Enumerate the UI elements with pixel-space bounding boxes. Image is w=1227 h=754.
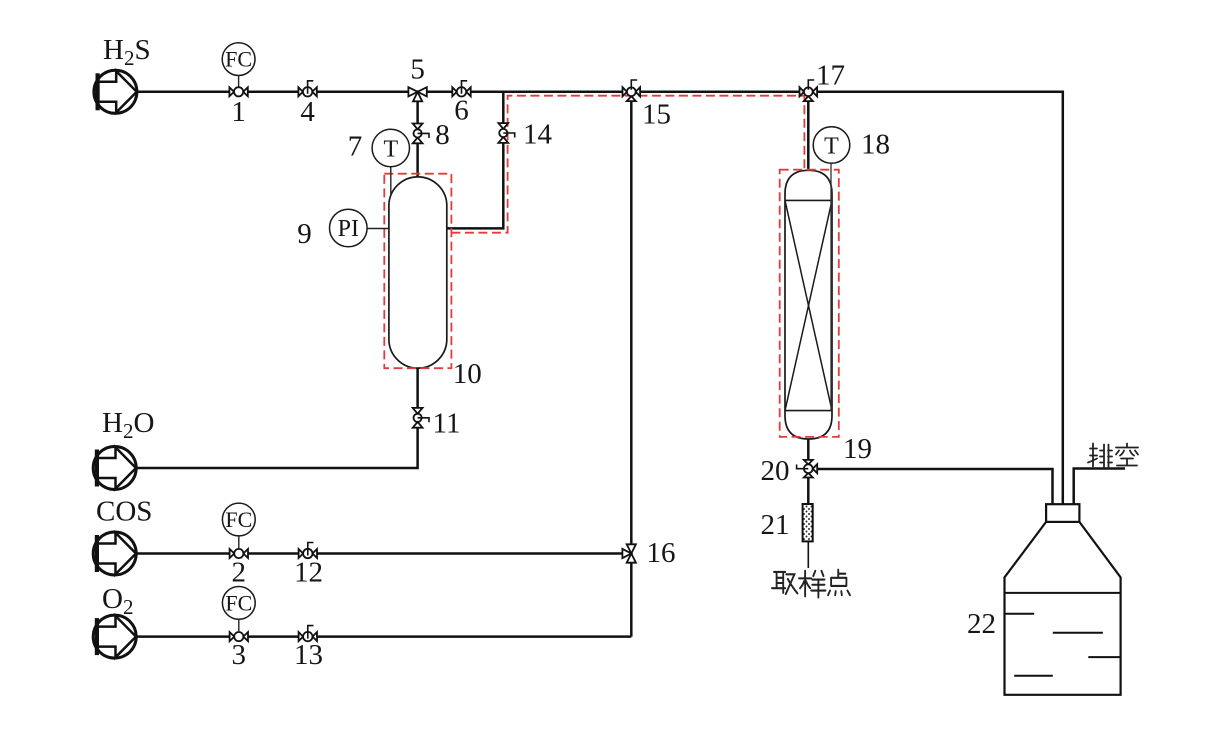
svg-text:8: 8 xyxy=(435,119,450,151)
svg-text:T: T xyxy=(383,137,398,163)
heated line red dashed around vessel 10 xyxy=(384,174,451,369)
svg-text:11: 11 xyxy=(433,408,461,440)
svg-text:T: T xyxy=(824,134,839,160)
svg-text:6: 6 xyxy=(454,95,469,127)
label 取样点 sampling point (hand-drawn glyphs) xyxy=(772,570,850,598)
pipe O2 line to valve16 riser xyxy=(136,635,631,638)
svg-text:22: 22 xyxy=(967,608,996,640)
reactor bottom tangent line xyxy=(785,410,832,412)
gas source H2S xyxy=(94,70,137,113)
control valve 3 xyxy=(230,632,248,641)
svg-text:14: 14 xyxy=(523,119,553,151)
pipe vessel outlet to valve14 riser xyxy=(447,92,504,229)
three-way valve 5 xyxy=(408,87,426,101)
svg-text:15: 15 xyxy=(642,99,671,131)
pipe valve15 down through valve16 to O2 line xyxy=(630,92,633,637)
valve 13 xyxy=(299,626,317,642)
svg-text:FC: FC xyxy=(225,47,252,72)
reactor packing X diagonal 2 xyxy=(785,200,832,410)
three-way valve 17 xyxy=(800,80,818,101)
svg-text:FC: FC xyxy=(225,590,252,615)
three-way valve 15 xyxy=(623,80,641,101)
instrument FC for valve 2 xyxy=(222,503,255,549)
svg-text:5: 5 xyxy=(410,54,425,86)
valve 14 xyxy=(498,123,514,143)
control valve 1 xyxy=(229,87,247,96)
valve 6 xyxy=(452,81,470,97)
pipe branch valve5 down to vessel xyxy=(416,92,419,180)
three-way valve 20 xyxy=(797,460,818,478)
reactor top tangent line xyxy=(785,199,832,201)
svg-text:20: 20 xyxy=(761,455,790,487)
gas source O2 xyxy=(93,615,136,658)
filter 21 sampling element xyxy=(803,504,813,541)
svg-text:16: 16 xyxy=(647,537,676,569)
instrument T7 xyxy=(372,129,409,194)
svg-text:FC: FC xyxy=(225,507,252,532)
pipe vent line to paikong xyxy=(1074,469,1125,505)
heated line red dashed transfer path xyxy=(451,96,804,233)
pipe reactor outlet through valve20 to filter xyxy=(807,437,810,504)
instrument FC for valve 3 xyxy=(222,587,255,633)
svg-text:18: 18 xyxy=(861,129,890,161)
label 排空 vent (hand-drawn glyphs) xyxy=(1088,444,1138,468)
instrument T18 xyxy=(813,127,850,164)
gas source COS xyxy=(93,532,136,575)
instrument PI9 xyxy=(330,209,390,247)
pipe H2S main line top xyxy=(137,92,1063,504)
svg-text:19: 19 xyxy=(843,433,872,465)
svg-text:9: 9 xyxy=(297,218,312,250)
three-way valve 16 xyxy=(622,544,636,562)
valve 8 xyxy=(413,123,429,143)
svg-text:12: 12 xyxy=(294,557,323,589)
valve 12 xyxy=(299,543,317,559)
pipe sampling line below filter xyxy=(807,541,809,568)
reactor 19 column body xyxy=(785,170,832,439)
gas source H2O xyxy=(93,447,136,490)
pipe H2O line to vessel bottom xyxy=(136,368,417,468)
svg-text:1: 1 xyxy=(231,96,246,128)
svg-text:2: 2 xyxy=(232,557,247,589)
svg-text:4: 4 xyxy=(300,96,315,128)
svg-text:7: 7 xyxy=(348,131,363,163)
svg-text:3: 3 xyxy=(232,639,247,671)
valve 11 xyxy=(413,408,429,428)
control valve 2 xyxy=(230,549,248,558)
svg-text:COS: COS xyxy=(96,496,152,528)
collection bottle 22 xyxy=(1005,504,1121,695)
reactor packing X diagonal 1 xyxy=(785,200,832,410)
svg-text:21: 21 xyxy=(761,509,790,541)
svg-text:PI: PI xyxy=(338,216,359,242)
pipe valve17 down to reactor xyxy=(807,92,810,172)
pipe valve20 to bottle neck xyxy=(808,469,1052,504)
pipe COS line to valve16 xyxy=(136,552,631,555)
svg-text:13: 13 xyxy=(294,639,323,671)
vessel 10 buffer tank xyxy=(389,177,447,368)
valve 4 xyxy=(298,81,316,97)
instrument FC for valve 1 xyxy=(222,43,255,87)
heated line red dashed around reactor xyxy=(780,170,839,437)
thermowell line T18 into reactor xyxy=(830,164,832,411)
svg-text:17: 17 xyxy=(816,60,845,92)
svg-text:10: 10 xyxy=(453,358,482,390)
